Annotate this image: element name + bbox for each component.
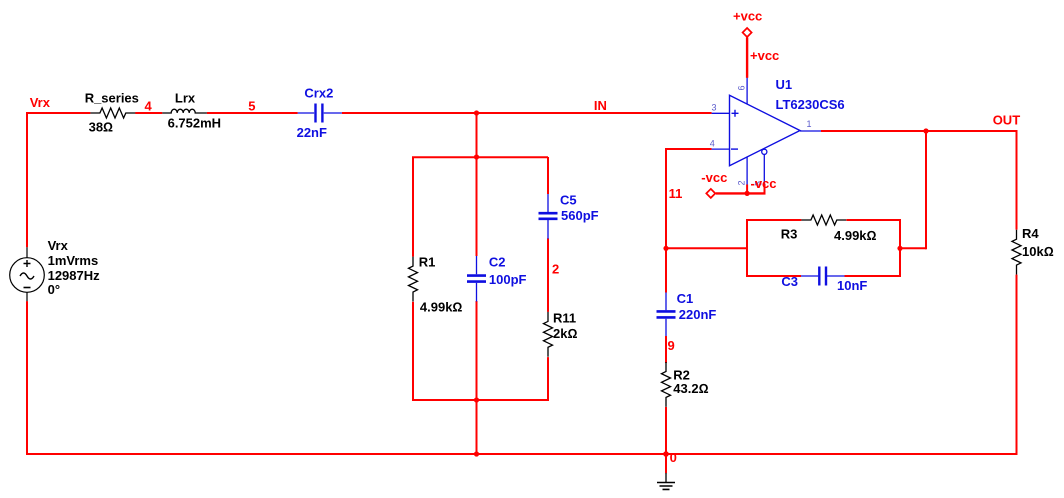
resistor R1 xyxy=(409,257,418,302)
label Vrx value 1mVrms xyxy=(48,253,99,268)
svg-text:11: 11 xyxy=(669,186,683,201)
pin number 2 (rotated) xyxy=(736,180,746,185)
net label Vrx (top left) xyxy=(30,95,51,110)
wire: -vcc rail xyxy=(716,192,766,194)
wire: feedback box left edge xyxy=(746,219,748,277)
wire: node 9 segment between C1 and R2 xyxy=(665,336,667,363)
svg-text:4.99kΩ: 4.99kΩ xyxy=(420,299,463,314)
op-amp pin 2 stub xyxy=(746,157,748,186)
wire: +vcc stub to op-amp pin 6 xyxy=(746,38,748,78)
wire: feedback box right edge xyxy=(899,219,901,277)
op-amp pin 1 stub xyxy=(800,130,821,132)
svg-text:C3: C3 xyxy=(781,274,798,289)
svg-text:1mVrms: 1mVrms xyxy=(48,253,99,268)
label R_series value 38Ω xyxy=(89,120,113,135)
svg-text:1: 1 xyxy=(807,119,812,129)
svg-text:38Ω: 38Ω xyxy=(89,120,113,135)
junction: box bottom at main vertical xyxy=(474,397,479,402)
svg-text:Vrx: Vrx xyxy=(48,238,69,253)
junction: output at feedback xyxy=(923,128,928,133)
label +vcc (net) xyxy=(750,48,779,63)
pin number 6 (rotated) xyxy=(737,85,747,90)
wire: stub to ground xyxy=(665,454,667,473)
label -vcc (right) xyxy=(751,176,777,191)
wire: left vertical from top corner down to source Vrx xyxy=(26,112,28,247)
svg-text:Crx2: Crx2 xyxy=(304,86,333,101)
svg-text:+vcc: +vcc xyxy=(733,9,762,24)
svg-text:IN: IN xyxy=(594,98,607,113)
junction: IN at main vertical xyxy=(474,110,479,115)
pin number 1 xyxy=(807,119,812,129)
label C3 name xyxy=(781,274,798,289)
svg-text:43.2Ω: 43.2Ω xyxy=(673,381,708,396)
wire: middle box bottom edge xyxy=(412,399,548,401)
junction: -vcc rail at pin 2 xyxy=(745,191,750,196)
label C2 name xyxy=(489,255,506,270)
wire: R4 branch bottom to rail xyxy=(1016,275,1018,455)
svg-text:R3: R3 xyxy=(781,227,798,242)
wire: feedback to output horizontal xyxy=(900,247,926,249)
label C3 value 10nF xyxy=(837,278,867,293)
wire: feedback box bottom edge after C3 xyxy=(845,275,902,277)
svg-text:-vcc: -vcc xyxy=(701,170,727,185)
label C2 value 100pF xyxy=(489,272,527,287)
svg-text:R1: R1 xyxy=(419,255,436,270)
wire: feedback box top edge after R3 xyxy=(846,219,901,221)
wire: net OUT from op-amp pin 1 to R4 xyxy=(821,130,1018,132)
wire: R2 to bottom rail xyxy=(665,407,667,454)
svg-text:4.99kΩ: 4.99kΩ xyxy=(834,228,877,243)
label Crx2 value 22nF xyxy=(297,125,327,140)
resistor R4 xyxy=(1012,230,1021,275)
label R4 value 10kΩ xyxy=(1022,244,1054,259)
svg-text:4: 4 xyxy=(710,138,715,148)
wire: pin 2 to -vcc rail xyxy=(746,185,748,194)
label Lrx name xyxy=(175,91,196,106)
label R_series name xyxy=(85,91,139,106)
junction: bottom rail at ground branch xyxy=(663,451,669,457)
svg-text:Vrx: Vrx xyxy=(30,95,51,110)
capacitor C5 xyxy=(539,194,558,239)
wire: node 11 vertical down to C1 xyxy=(665,148,667,293)
op-amp pin 5 stub xyxy=(763,154,765,184)
wire: middle box right edge below R11 xyxy=(547,357,549,401)
svg-text:U1: U1 xyxy=(776,77,793,92)
svg-text:0°: 0° xyxy=(48,282,60,297)
label R1 value 4.99kΩ xyxy=(420,299,463,314)
resistor R2 xyxy=(662,362,671,407)
junction: node 11 at feedback tap xyxy=(663,246,668,251)
svg-text:Lrx: Lrx xyxy=(175,91,196,106)
svg-text:6: 6 xyxy=(737,85,747,90)
pin number 4 xyxy=(710,138,715,148)
svg-text:R4: R4 xyxy=(1022,226,1039,241)
svg-text:5: 5 xyxy=(248,99,255,114)
label R2 name xyxy=(673,367,690,382)
pin number 3 xyxy=(712,103,717,113)
capacitor C2 xyxy=(467,256,486,302)
svg-text:LT6230CS6: LT6230CS6 xyxy=(776,97,845,112)
wire: left vertical from source Vrx down to bottom rail xyxy=(26,301,28,455)
label net OUT xyxy=(993,113,1021,128)
ground symbol xyxy=(657,473,675,489)
wire: R4 branch top xyxy=(1016,130,1018,230)
voltage source Vrx xyxy=(10,247,45,301)
label Vrx frequency 12987Hz xyxy=(48,268,101,283)
wire: middle box right edge top above C5 xyxy=(547,157,549,194)
svg-text:0: 0 xyxy=(670,450,677,465)
label C1 value 220nF xyxy=(679,307,717,322)
port -vcc diamond xyxy=(706,189,715,198)
svg-text:-vcc: -vcc xyxy=(751,176,777,191)
label Vrx phase 0° xyxy=(48,282,60,297)
label R3 name xyxy=(781,227,798,242)
capacitor C1 xyxy=(657,293,676,337)
op-amp pin 5 bubble xyxy=(762,149,767,154)
svg-text:C5: C5 xyxy=(560,193,577,208)
wire: feedback vertical up to output xyxy=(925,131,927,250)
wire: middle box top edge xyxy=(412,157,548,256)
label +vcc (port) xyxy=(733,9,762,24)
svg-text:560pF: 560pF xyxy=(561,208,599,223)
node 11 label xyxy=(669,186,683,201)
wire: node 2 segment between C5 and R11 xyxy=(547,238,549,312)
wire: top net Vrx horizontal from left corner to R_series xyxy=(26,112,90,114)
node 5 label xyxy=(248,99,255,114)
junction: box top at main vertical xyxy=(474,154,479,159)
svg-text:22nF: 22nF xyxy=(297,125,327,140)
resistor R_series xyxy=(90,108,135,118)
svg-text:R11: R11 xyxy=(553,311,576,326)
op-amp pin 4 stub xyxy=(712,148,730,150)
resistor R3 xyxy=(801,215,846,225)
svg-text:4: 4 xyxy=(145,99,153,114)
resistor R11 xyxy=(544,312,553,357)
svg-text:6.752mH: 6.752mH xyxy=(168,115,221,130)
node 2 label xyxy=(552,261,559,276)
label Crx2 name xyxy=(304,86,333,101)
label R4 name xyxy=(1022,226,1039,241)
label net IN xyxy=(594,98,607,113)
wire: net IN from Crx2 to op-amp pin 3 xyxy=(342,112,712,114)
wire: main vertical below C2 to bottom rail xyxy=(476,301,478,455)
label R2 value 43.2Ω xyxy=(673,381,708,396)
wire: node 4 between R_series and Lrx xyxy=(135,112,162,114)
label R11 value 2kΩ xyxy=(553,326,577,341)
label R11 name xyxy=(553,311,576,326)
label Lrx value 6.752mH xyxy=(168,115,221,130)
inductor Lrx xyxy=(162,109,207,113)
port +vcc diamond xyxy=(743,28,752,37)
svg-text:+vcc: +vcc xyxy=(750,48,779,63)
node 4 label xyxy=(145,99,153,114)
capacitor C3 xyxy=(801,267,845,286)
pin number 5 (rotated, mostly hidden behind -vcc label) xyxy=(754,181,764,186)
label R3 value 4.99kΩ xyxy=(834,228,877,243)
junction: bottom rail at main vertical xyxy=(474,451,479,456)
wire: middle box left edge below R1 xyxy=(412,302,414,400)
wire: bottom rail xyxy=(26,453,1018,455)
wire: feedback tap horizontal to R3/C3 box xyxy=(666,247,747,249)
wire: inverting input horizontal (node 11) xyxy=(666,148,712,150)
svg-text:C2: C2 xyxy=(489,255,506,270)
label R1 name xyxy=(419,255,436,270)
svg-text:2kΩ: 2kΩ xyxy=(553,326,577,341)
op-amp plus input marker xyxy=(732,110,739,117)
label -vcc (left) xyxy=(701,170,727,185)
label LT6230CS6 xyxy=(776,97,845,112)
wire: feedback box top edge to R3 xyxy=(746,219,801,221)
op-amp minus input marker xyxy=(731,148,738,150)
svg-text:3: 3 xyxy=(712,103,717,113)
svg-text:2: 2 xyxy=(552,261,559,276)
label Vrx source name xyxy=(48,238,69,253)
label C5 value 560pF xyxy=(561,208,599,223)
svg-text:10nF: 10nF xyxy=(837,278,867,293)
node 9 label xyxy=(668,338,675,353)
svg-text:9: 9 xyxy=(668,338,675,353)
op-amp pin 3 stub xyxy=(712,112,730,114)
svg-text:2: 2 xyxy=(736,180,746,185)
wire: node 5 between Lrx and Crx2 xyxy=(207,112,298,114)
label U1 xyxy=(776,77,793,92)
label C1 name xyxy=(677,291,694,306)
svg-text:OUT: OUT xyxy=(993,113,1021,128)
svg-text:C1: C1 xyxy=(677,291,694,306)
wire: main vertical IN down to C2 xyxy=(476,112,478,256)
svg-text:220nF: 220nF xyxy=(679,307,717,322)
svg-text:R_series: R_series xyxy=(85,91,139,106)
op-amp pin 6 stub xyxy=(746,77,748,104)
capacitor Crx2 xyxy=(298,104,342,123)
node 0 label xyxy=(670,450,677,465)
svg-text:10kΩ: 10kΩ xyxy=(1022,244,1054,259)
label C5 name xyxy=(560,193,577,208)
svg-text:100pF: 100pF xyxy=(489,272,527,287)
wire: pin 5 to -vcc rail xyxy=(764,184,766,195)
junction: feedback box right mid xyxy=(897,246,902,251)
op-amp U1 triangle xyxy=(730,95,801,165)
wire: feedback box bottom edge to C3 xyxy=(746,275,801,277)
